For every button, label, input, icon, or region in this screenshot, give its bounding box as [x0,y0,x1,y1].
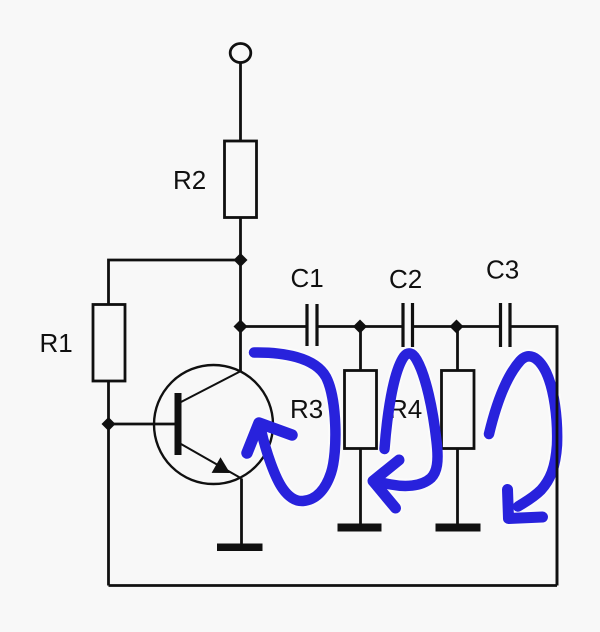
wire R3 [359,327,362,372]
node junction at R2 bottom / R1 [234,253,248,267]
wire R1 bottom to base node and down [107,381,110,586]
wire right edge redraw over blue [556,327,559,586]
wire terminal to R2 [239,64,242,142]
wire R4 [456,327,459,372]
ground (emitter) [217,544,263,552]
terminal (supply) [230,44,251,63]
resistor R2 [225,141,257,218]
node junction C1-C2 / R3 [353,320,367,334]
feedback loop arrow 3 (blue, around C3/output) [489,356,557,518]
resistor R3 [345,371,377,449]
wire base [109,423,179,426]
svg-text:R3: R3 [290,394,323,424]
feedback loop arrow 1 (blue, around C1/R3) [247,352,335,501]
svg-text:C3: C3 [486,255,519,285]
resistor R1 [93,305,125,382]
halo under blue arrows [247,352,557,518]
wire node to R1 top [109,260,241,305]
node junction collector / C1 [234,320,248,334]
svg-text:C1: C1 [291,263,324,293]
ground (R3) [338,524,382,532]
svg-text:R1: R1 [40,328,73,358]
feedback loop arrow 2 (blue, around C2/R4) [373,353,438,508]
wire R2 to collector node [239,218,242,372]
capacitor C2 [403,303,413,347]
capacitor C3 [501,303,511,347]
node junction base / R1 [102,417,116,431]
svg-text:C2: C2 [389,264,422,294]
wire top RC chain [241,325,307,328]
svg-text:R2: R2 [173,165,206,195]
resistor R4 [442,371,475,449]
wire C3 to right edge, down [511,327,557,586]
node junction C2-C3 / R4 [450,320,464,334]
wire bottom return [109,584,558,587]
ground (R4) [436,524,481,532]
transistor Q1 [154,365,273,544]
capacitor C1 [307,304,317,346]
